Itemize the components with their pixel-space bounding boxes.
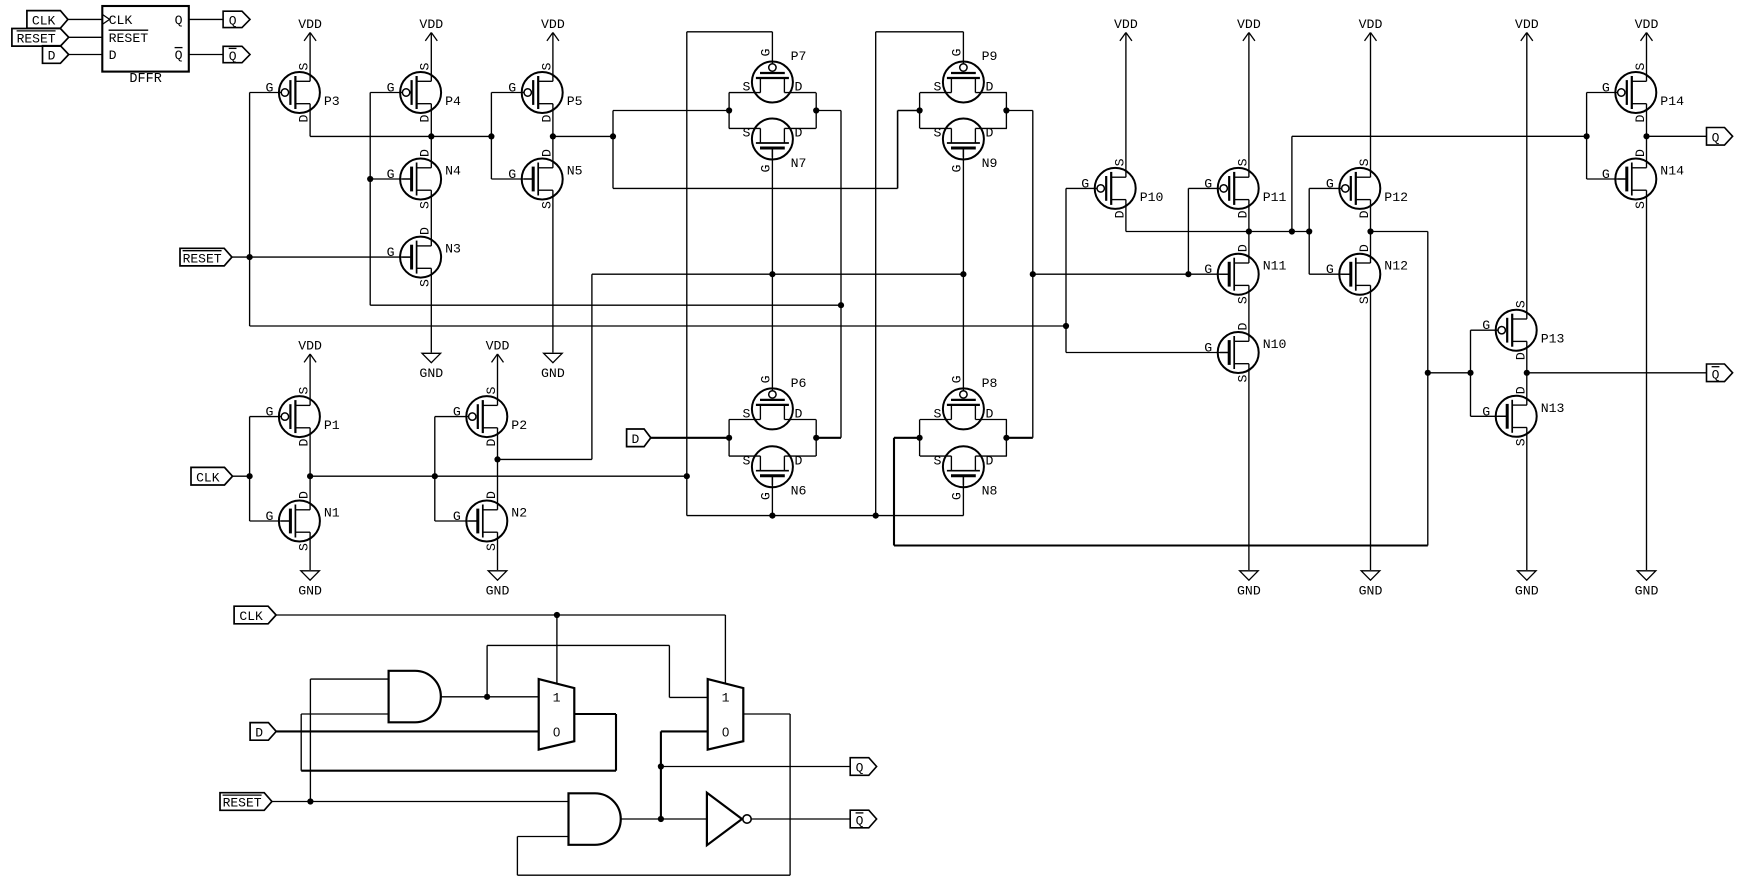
svg-text:D: D bbox=[985, 407, 993, 422]
svg-text:CLK: CLK bbox=[109, 13, 133, 28]
svg-text:N11: N11 bbox=[1263, 259, 1287, 274]
svg-text:VDD: VDD bbox=[1515, 17, 1539, 32]
svg-text:S: S bbox=[742, 80, 750, 95]
svg-text:Q: Q bbox=[175, 13, 183, 28]
svg-text:G: G bbox=[1482, 404, 1490, 419]
svg-text:G: G bbox=[1204, 176, 1212, 191]
svg-text:D: D bbox=[48, 49, 56, 64]
svg-text:D: D bbox=[794, 453, 802, 468]
svg-text:CLK: CLK bbox=[32, 14, 56, 29]
svg-text:D: D bbox=[985, 453, 993, 468]
svg-text:P2: P2 bbox=[511, 418, 527, 433]
svg-text:G: G bbox=[950, 375, 965, 383]
svg-text:S: S bbox=[1235, 296, 1250, 304]
svg-text:N7: N7 bbox=[791, 156, 807, 171]
svg-text:D: D bbox=[1235, 210, 1250, 218]
svg-text:D: D bbox=[109, 48, 117, 63]
svg-text:G: G bbox=[453, 405, 461, 420]
svg-text:S: S bbox=[297, 387, 312, 395]
svg-text:D: D bbox=[539, 149, 554, 157]
svg-text:VDD: VDD bbox=[541, 17, 565, 32]
svg-text:G: G bbox=[387, 167, 395, 182]
svg-text:D: D bbox=[1235, 322, 1250, 330]
svg-text:1: 1 bbox=[553, 691, 561, 706]
svg-text:G: G bbox=[1081, 176, 1089, 191]
svg-text:VDD: VDD bbox=[1635, 17, 1659, 32]
svg-text:G: G bbox=[265, 81, 273, 96]
svg-text:G: G bbox=[1204, 341, 1212, 356]
svg-text:Q: Q bbox=[856, 761, 864, 776]
svg-text:N8: N8 bbox=[982, 484, 998, 499]
svg-text:VDD: VDD bbox=[1237, 17, 1261, 32]
svg-text:Q: Q bbox=[856, 814, 864, 829]
svg-text:S: S bbox=[1357, 296, 1372, 304]
svg-text:VDD: VDD bbox=[298, 339, 322, 354]
svg-text:S: S bbox=[484, 543, 499, 551]
svg-text:P10: P10 bbox=[1140, 190, 1164, 205]
svg-text:S: S bbox=[1633, 62, 1648, 70]
svg-text:G: G bbox=[950, 164, 965, 172]
svg-text:GND: GND bbox=[1635, 584, 1659, 599]
svg-text:N5: N5 bbox=[567, 164, 583, 179]
svg-text:S: S bbox=[297, 543, 312, 551]
svg-text:P11: P11 bbox=[1263, 190, 1287, 205]
svg-text:G: G bbox=[387, 81, 395, 96]
svg-text:S: S bbox=[933, 126, 941, 141]
svg-text:G: G bbox=[265, 509, 273, 524]
svg-text:N12: N12 bbox=[1384, 259, 1408, 274]
svg-text:S: S bbox=[539, 201, 554, 209]
svg-text:S: S bbox=[742, 407, 750, 422]
svg-text:D: D bbox=[418, 149, 433, 157]
svg-text:D: D bbox=[794, 407, 802, 422]
svg-text:G: G bbox=[453, 509, 461, 524]
svg-text:P4: P4 bbox=[445, 94, 461, 109]
svg-text:1: 1 bbox=[722, 691, 730, 706]
svg-text:D: D bbox=[297, 491, 312, 499]
svg-text:G: G bbox=[508, 167, 516, 182]
svg-text:P8: P8 bbox=[982, 376, 998, 391]
svg-text:N13: N13 bbox=[1541, 401, 1565, 416]
svg-text:Q: Q bbox=[175, 48, 183, 63]
svg-text:N6: N6 bbox=[791, 484, 807, 499]
svg-text:RESET: RESET bbox=[223, 796, 262, 811]
svg-text:N3: N3 bbox=[445, 242, 461, 257]
svg-text:D: D bbox=[631, 432, 639, 447]
svg-text:0: 0 bbox=[722, 725, 729, 740]
svg-text:N2: N2 bbox=[511, 506, 527, 521]
svg-text:D: D bbox=[794, 80, 802, 95]
svg-text:G: G bbox=[950, 48, 965, 56]
svg-text:GND: GND bbox=[541, 366, 565, 381]
svg-text:S: S bbox=[484, 387, 499, 395]
svg-text:D: D bbox=[418, 227, 433, 235]
svg-text:S: S bbox=[1235, 374, 1250, 382]
svg-text:VDD: VDD bbox=[1359, 17, 1383, 32]
svg-text:GND: GND bbox=[1359, 584, 1383, 599]
svg-text:VDD: VDD bbox=[1114, 17, 1138, 32]
svg-text:S: S bbox=[1633, 201, 1648, 209]
svg-text:S: S bbox=[418, 62, 433, 70]
svg-text:D: D bbox=[1513, 352, 1528, 360]
svg-text:D: D bbox=[255, 726, 263, 741]
svg-text:GND: GND bbox=[298, 584, 322, 599]
svg-text:G: G bbox=[1326, 176, 1334, 191]
svg-text:RESET: RESET bbox=[183, 251, 222, 266]
svg-text:D: D bbox=[1633, 114, 1648, 122]
svg-text:G: G bbox=[1602, 167, 1610, 182]
svg-text:S: S bbox=[742, 453, 750, 468]
svg-text:D: D bbox=[1357, 244, 1372, 252]
svg-text:N1: N1 bbox=[324, 506, 340, 521]
svg-text:GND: GND bbox=[486, 584, 510, 599]
svg-text:P3: P3 bbox=[324, 94, 340, 109]
svg-text:D: D bbox=[539, 114, 554, 122]
svg-text:G: G bbox=[759, 48, 774, 56]
svg-text:D: D bbox=[484, 439, 499, 447]
svg-text:G: G bbox=[1482, 318, 1490, 333]
svg-text:P14: P14 bbox=[1660, 94, 1684, 109]
svg-text:DFFR: DFFR bbox=[129, 72, 161, 87]
svg-text:D: D bbox=[1513, 386, 1528, 394]
svg-text:G: G bbox=[950, 492, 965, 500]
svg-text:S: S bbox=[933, 80, 941, 95]
svg-text:CLK: CLK bbox=[239, 609, 263, 624]
svg-text:G: G bbox=[759, 375, 774, 383]
svg-text:N10: N10 bbox=[1263, 337, 1287, 352]
svg-text:CLK: CLK bbox=[196, 470, 220, 485]
svg-text:N14: N14 bbox=[1660, 164, 1684, 179]
svg-text:D: D bbox=[297, 114, 312, 122]
svg-text:P13: P13 bbox=[1541, 332, 1565, 347]
svg-text:VDD: VDD bbox=[298, 17, 322, 32]
svg-text:S: S bbox=[1235, 158, 1250, 166]
svg-text:S: S bbox=[418, 201, 433, 209]
svg-text:D: D bbox=[985, 126, 993, 141]
svg-text:G: G bbox=[759, 164, 774, 172]
svg-text:S: S bbox=[1112, 158, 1127, 166]
svg-text:S: S bbox=[1357, 158, 1372, 166]
svg-text:G: G bbox=[759, 492, 774, 500]
svg-text:P1: P1 bbox=[324, 418, 340, 433]
svg-text:P5: P5 bbox=[567, 94, 583, 109]
svg-text:S: S bbox=[297, 62, 312, 70]
svg-text:G: G bbox=[1204, 262, 1212, 277]
svg-text:Q: Q bbox=[1712, 367, 1720, 382]
svg-text:P7: P7 bbox=[791, 49, 807, 64]
svg-text:N9: N9 bbox=[982, 156, 998, 171]
svg-text:D: D bbox=[985, 80, 993, 95]
svg-text:D: D bbox=[1235, 244, 1250, 252]
svg-text:G: G bbox=[508, 81, 516, 96]
svg-text:G: G bbox=[1602, 81, 1610, 96]
svg-text:G: G bbox=[265, 405, 273, 420]
svg-text:S: S bbox=[742, 126, 750, 141]
svg-text:Q: Q bbox=[1712, 131, 1720, 146]
svg-text:RESET: RESET bbox=[17, 32, 56, 47]
svg-text:Q: Q bbox=[229, 49, 237, 64]
svg-text:GND: GND bbox=[1515, 584, 1539, 599]
svg-text:S: S bbox=[933, 453, 941, 468]
svg-text:GND: GND bbox=[1237, 584, 1261, 599]
svg-text:G: G bbox=[1326, 262, 1334, 277]
svg-text:D: D bbox=[1112, 210, 1127, 218]
svg-text:N4: N4 bbox=[445, 164, 461, 179]
svg-text:S: S bbox=[1513, 300, 1528, 308]
svg-text:P12: P12 bbox=[1384, 190, 1408, 205]
svg-text:D: D bbox=[1357, 210, 1372, 218]
svg-text:GND: GND bbox=[419, 366, 443, 381]
svg-text:D: D bbox=[418, 114, 433, 122]
svg-text:VDD: VDD bbox=[419, 17, 443, 32]
svg-text:VDD: VDD bbox=[486, 339, 510, 354]
svg-text:D: D bbox=[297, 439, 312, 447]
svg-text:D: D bbox=[484, 491, 499, 499]
svg-text:D: D bbox=[794, 126, 802, 141]
svg-text:S: S bbox=[933, 407, 941, 422]
svg-text:G: G bbox=[387, 245, 395, 260]
svg-text:P6: P6 bbox=[791, 376, 807, 391]
svg-text:RESET: RESET bbox=[109, 31, 149, 46]
svg-text:P9: P9 bbox=[982, 49, 998, 64]
svg-text:S: S bbox=[418, 279, 433, 287]
svg-text:D: D bbox=[1633, 149, 1648, 157]
svg-text:0: 0 bbox=[553, 725, 560, 740]
svg-text:Q: Q bbox=[229, 14, 237, 29]
svg-text:S: S bbox=[539, 62, 554, 70]
svg-text:S: S bbox=[1513, 438, 1528, 446]
